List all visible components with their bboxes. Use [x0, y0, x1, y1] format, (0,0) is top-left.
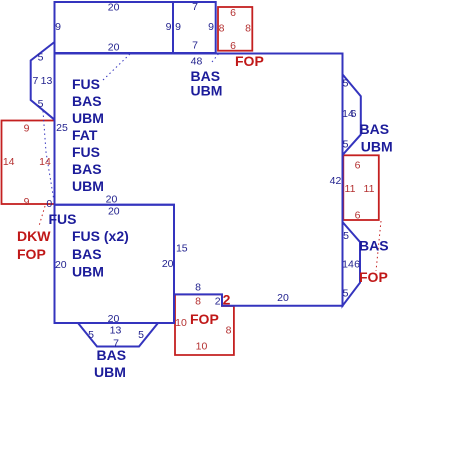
svg-text:UBM: UBM: [72, 264, 104, 280]
blue dotted leader from FUS to left bay: [43, 111, 54, 201]
svg-text:14: 14: [342, 259, 354, 271]
svg-text:8: 8: [226, 325, 232, 337]
svg-text:8: 8: [195, 282, 201, 294]
svg-text:BAS: BAS: [191, 68, 221, 84]
svg-text:5: 5: [343, 230, 349, 242]
svg-text:UBM: UBM: [361, 139, 393, 155]
svg-text:FUS: FUS: [72, 76, 100, 92]
svg-text:5: 5: [138, 329, 144, 341]
right lower bay (BAS/FOP): [343, 222, 361, 306]
top-left addition rect 20x9: [55, 2, 174, 53]
svg-text:UBM: UBM: [191, 83, 223, 99]
bottom bay trapezoid (BAS/UBM): [78, 323, 158, 347]
svg-text:8: 8: [195, 296, 201, 308]
svg-text:2: 2: [223, 292, 231, 308]
svg-text:FOP: FOP: [359, 269, 388, 285]
main outline (48x42 with step): [55, 54, 343, 306]
svg-text:13: 13: [110, 325, 122, 337]
svg-text:9: 9: [175, 21, 181, 33]
svg-text:20: 20: [108, 2, 120, 14]
svg-text:BAS: BAS: [97, 347, 127, 363]
svg-text:20: 20: [55, 259, 67, 271]
svg-text:UBM: UBM: [94, 364, 126, 380]
red rect left (DKW/FOP 9x14): [2, 121, 55, 205]
svg-text:7: 7: [32, 75, 38, 87]
red porch bottom (FOP 10x10 Z-shape): [175, 294, 234, 355]
svg-text:42: 42: [330, 175, 342, 187]
svg-text:10: 10: [196, 341, 208, 353]
svg-text:5: 5: [38, 51, 44, 63]
svg-text:BAS: BAS: [360, 121, 390, 137]
svg-text:7: 7: [192, 1, 198, 13]
blue dotted leader from FUS block to main: [103, 53, 131, 80]
svg-text:6: 6: [351, 108, 357, 120]
blue dotted leader from BAS to top rect: [212, 52, 220, 62]
svg-text:FUS: FUS: [72, 144, 100, 160]
svg-text:9: 9: [208, 21, 214, 33]
svg-text:BAS: BAS: [72, 93, 102, 109]
svg-text:6: 6: [230, 40, 236, 52]
svg-text:5: 5: [343, 288, 349, 300]
svg-text:FUS: FUS: [49, 211, 77, 227]
svg-text:20: 20: [162, 258, 174, 270]
svg-text:20: 20: [108, 42, 120, 54]
svg-text:6: 6: [355, 160, 361, 172]
svg-text:6: 6: [355, 210, 361, 222]
svg-text:10: 10: [175, 317, 187, 329]
red dotted leader to DKW: [39, 206, 45, 226]
svg-text:5: 5: [38, 98, 44, 110]
svg-text:20: 20: [106, 194, 118, 206]
svg-text:BAS: BAS: [72, 161, 102, 177]
red dotted leader to right FOP: [376, 221, 381, 271]
svg-text:7: 7: [192, 40, 198, 52]
svg-text:5: 5: [343, 139, 349, 151]
svg-text:UBM: UBM: [72, 178, 104, 194]
svg-text:48: 48: [191, 56, 203, 68]
svg-text:DKW: DKW: [17, 228, 51, 244]
svg-text:BAS: BAS: [359, 238, 389, 254]
right upper bay (BAS/UBM): [343, 74, 361, 155]
svg-text:9: 9: [24, 123, 30, 135]
svg-text:FOP: FOP: [190, 311, 219, 327]
svg-text:2: 2: [215, 296, 221, 308]
svg-text:9: 9: [55, 21, 61, 33]
svg-text:9: 9: [166, 21, 172, 33]
lower-left wing rect 20x20: [55, 205, 175, 323]
svg-text:8: 8: [245, 22, 251, 34]
svg-text:20: 20: [277, 292, 289, 304]
svg-text:14: 14: [39, 156, 51, 168]
red porch rect top (FOP 6x8): [218, 7, 252, 51]
svg-text:13: 13: [41, 75, 53, 87]
svg-text:11: 11: [364, 183, 375, 195]
svg-text:20: 20: [108, 206, 120, 218]
red rect right (FOP 6x11): [343, 155, 379, 220]
svg-text:8: 8: [219, 22, 225, 34]
left bay (FUS): [31, 42, 55, 120]
svg-text:FAT: FAT: [72, 127, 98, 143]
svg-text:6: 6: [230, 7, 236, 19]
svg-text:20: 20: [108, 313, 120, 325]
svg-text:UBM: UBM: [72, 110, 104, 126]
svg-text:BAS: BAS: [72, 246, 102, 262]
svg-text:14: 14: [3, 156, 15, 168]
svg-text:FOP: FOP: [235, 53, 264, 69]
svg-text:FOP: FOP: [17, 246, 46, 262]
svg-text:0: 0: [46, 198, 52, 210]
svg-text:5: 5: [343, 78, 349, 90]
svg-text:9: 9: [24, 196, 30, 208]
svg-text:11: 11: [345, 183, 356, 195]
top addition rect 7x9: [173, 2, 216, 53]
svg-text:FUS (x2): FUS (x2): [72, 228, 129, 244]
svg-text:25: 25: [56, 122, 68, 134]
svg-text:15: 15: [176, 243, 188, 255]
svg-text:5: 5: [88, 329, 94, 341]
